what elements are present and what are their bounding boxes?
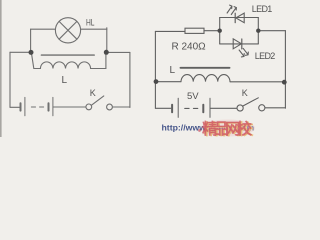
svg-text:L: L [62,75,68,86]
LED bridge left vertical [219,18,221,44]
svg-text:R 240Ω: R 240Ω [172,42,207,53]
switch K (left circuit) contacts [86,104,92,110]
LED bridge bottom rail [220,43,259,45]
svg-text:K: K [242,88,248,98]
lamp HL (circle with X) [55,18,80,43]
node F (coil row right) [282,80,287,85]
svg-text:5V: 5V [187,91,199,102]
watermark: red dot after www [198,129,201,132]
switch K (right circuit) lever [243,98,258,106]
battery 5V cell 1 short plate [171,105,173,113]
wire: switch to right corner (right circuit) [265,107,285,109]
wire: switch to right corner [112,106,129,108]
battery 5V dashes [185,107,198,109]
battery 5V cell 2 long plate [209,98,211,117]
svg-text:HL: HL [86,17,95,27]
LED bridge top rail [220,17,259,19]
wire: left circuit top rail to lamp [31,28,56,30]
wire: right circuit outer left vertical [154,31,156,108]
iron core line of inductor L (right) [181,67,230,69]
node B (left circuit, right junction) [104,50,109,55]
switch K (left circuit) lever [91,96,104,105]
LED1 triangle [236,13,244,23]
battery cell 1 short plate [20,103,22,110]
wire: outer right vertical [129,52,131,107]
watermark: pink halo [201,120,255,137]
battery 5V cell 1 long plate [177,98,179,117]
svg-text:L: L [170,65,176,76]
svg-text:精品网校: 精品网校 [202,119,252,137]
svg-text:http://www.: http://www. [162,122,208,132]
LED2 triangle [233,39,241,49]
battery dashes [31,106,43,108]
svg-text:K: K [90,88,96,98]
wire: lamp right to right riser [81,28,107,30]
inductor L (left) coil [32,54,106,69]
inductor L (right) coil [181,75,230,82]
wire: resistor to LED bridge left node [204,30,220,32]
paper background [0,0,297,137]
battery cell 2 short plate [48,103,50,110]
wire: left dot to outer left vertical [10,51,31,53]
svg-text:LED2: LED2 [255,51,275,61]
LED1 light arrows [227,5,232,13]
node C (LED bridge left) [218,29,222,33]
wire: coil row left segment [156,81,181,83]
wire: top-left corner to resistor [155,30,185,32]
wire: bottom rail left segment (right circuit) [155,107,170,109]
battery cell 2 long plate [52,97,54,115]
node D (LED bridge right) [256,29,260,33]
LED bridge right vertical [257,18,259,44]
LED2 light arrows [239,50,244,57]
wire: left riser [30,29,32,52]
wire: bottom rail left segment [10,106,20,108]
svg-text:LED1: LED1 [252,4,272,14]
LED1 cathode bar [234,13,236,22]
wire: battery to switch [53,106,86,108]
battery cell 1 long plate [24,97,26,115]
battery 5V cell 2 short plate [202,105,204,113]
wire: outer left vertical [9,52,11,107]
iron core line of inductor L (left) [41,54,94,56]
wire: battery to switch (right circuit) [210,107,237,109]
wire: coil row right segment [230,81,284,83]
resistor R box [185,28,204,33]
node E (coil row left) [154,79,159,84]
node A (left circuit, left junction) [29,50,34,55]
wire: right riser [106,28,108,52]
LED2 cathode bar [241,39,243,49]
wire: right circuit outer right vertical [284,31,286,109]
wire: right dot to outer right vertical [106,51,130,53]
wire: LED bridge right node to right vertical [258,30,285,32]
switch K (right circuit) contacts [237,105,243,111]
